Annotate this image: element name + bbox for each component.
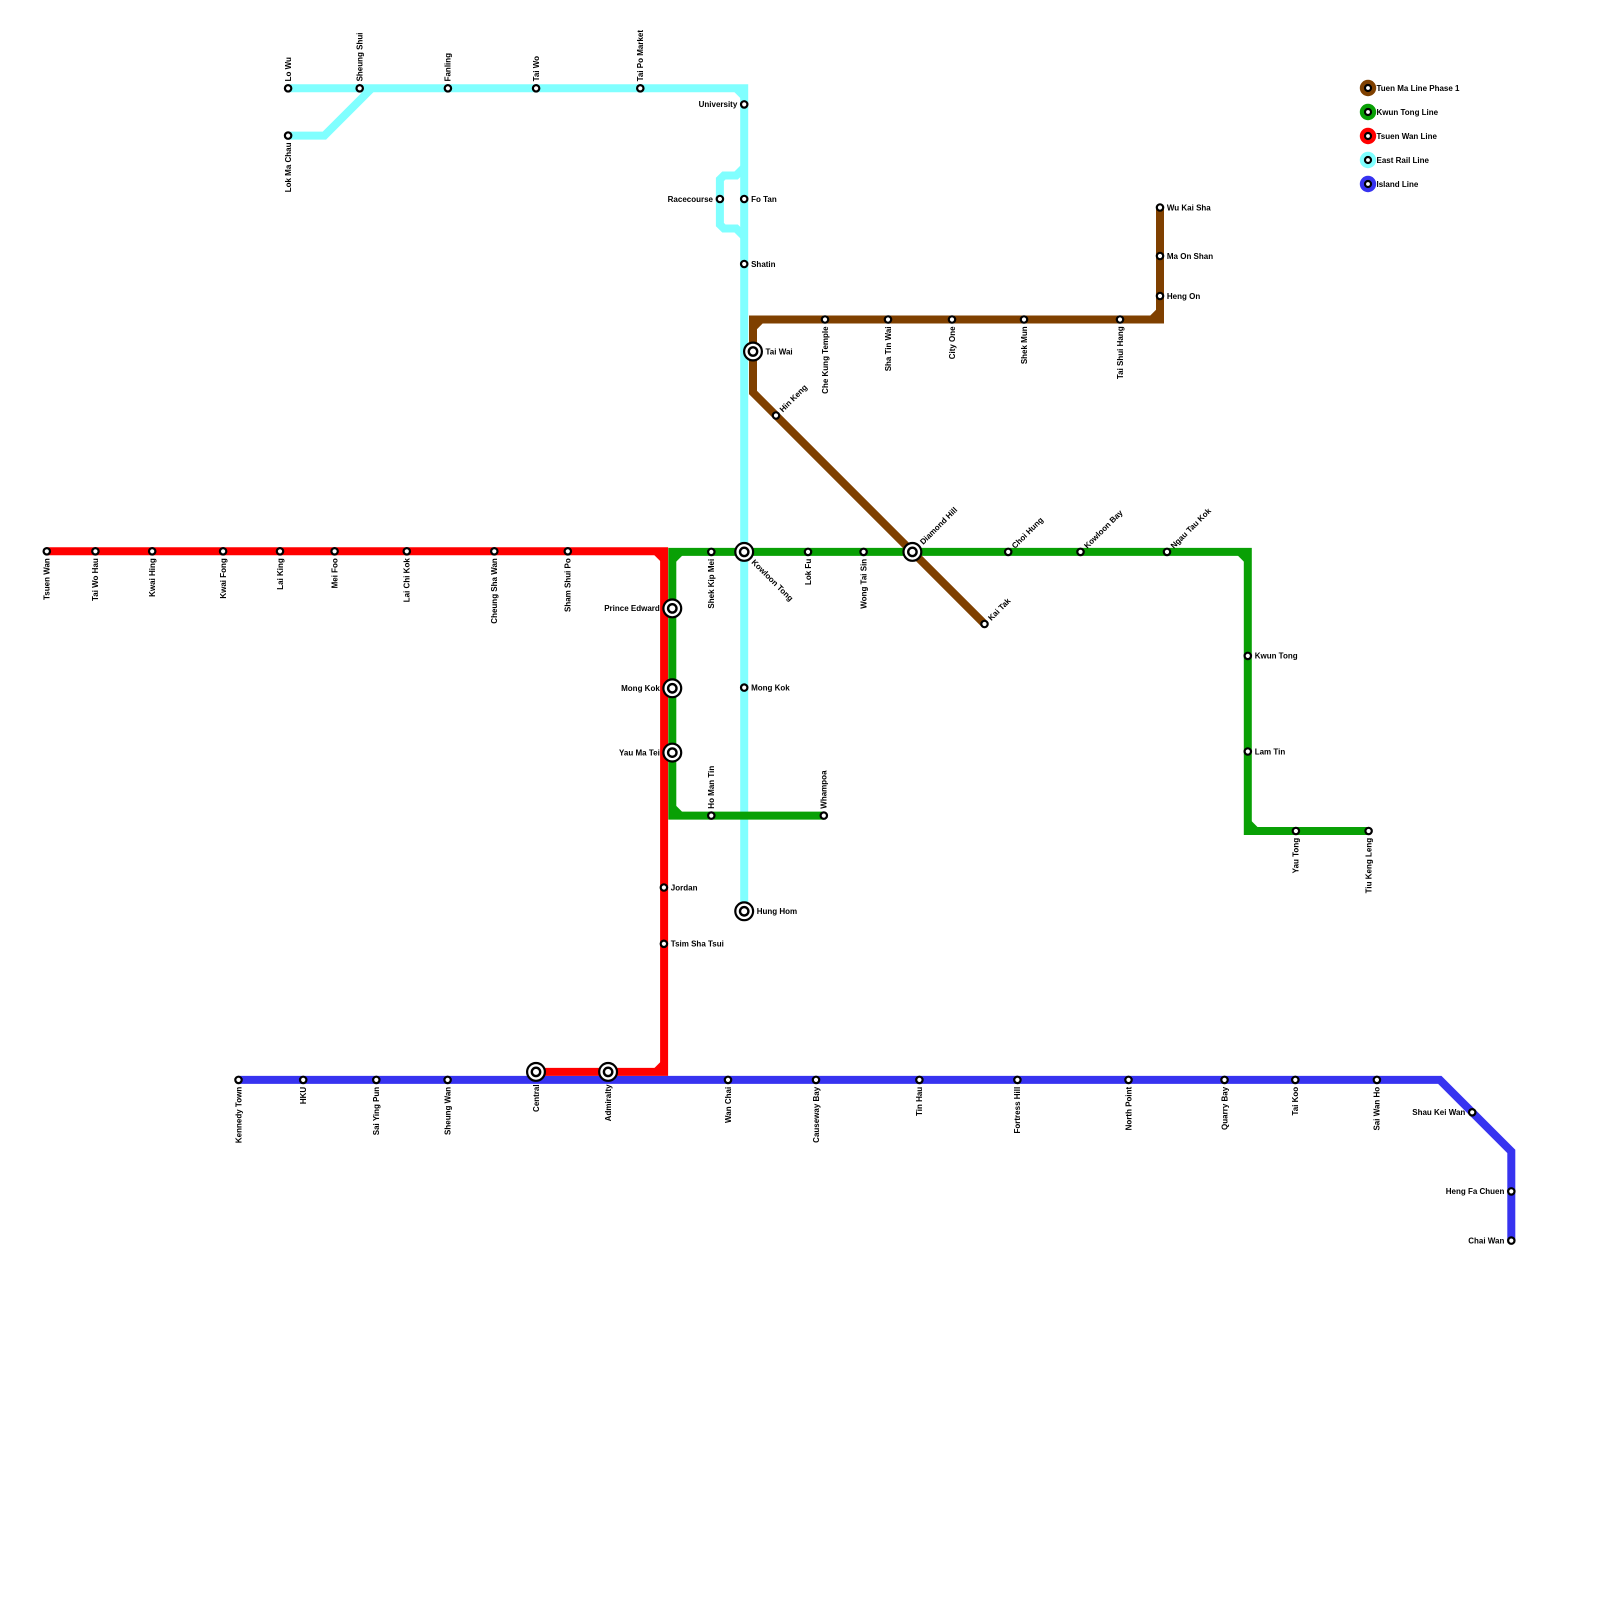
station Wu Kai Sha	[1157, 204, 1163, 210]
svg-text:Ho Man Tin: Ho Man Tin	[707, 766, 716, 809]
wire Kwun Tong Line: Whampoa to Tiu Keng Leng	[672, 552, 1368, 831]
svg-text:Sheung Wan: Sheung Wan	[443, 1087, 452, 1135]
interchange station Kowloon Tong	[735, 543, 753, 561]
wire Kwun Tong chamfer at Ho Man Tin corner	[672, 808, 680, 816]
svg-text:Causeway Bay: Causeway Bay	[812, 1086, 821, 1143]
station Lam Tin	[1245, 748, 1251, 754]
station Racecourse	[717, 196, 723, 202]
interchange station Diamond Hill	[904, 543, 922, 561]
wire Racecourse loop	[720, 168, 744, 237]
svg-text:HKU: HKU	[299, 1087, 308, 1105]
station Kennedy Town	[235, 1077, 241, 1083]
svg-text:Lai Chi Kok: Lai Chi Kok	[403, 558, 412, 603]
station Lok Fu	[805, 549, 811, 555]
svg-text:Whampoa: Whampoa	[820, 770, 829, 809]
svg-text:Admiralty: Admiralty	[604, 1084, 613, 1121]
interchange station Tai Wai	[744, 343, 762, 361]
legend marker Island Line	[1360, 176, 1376, 192]
svg-text:Tai Wo: Tai Wo	[532, 56, 541, 82]
station Sai Wan Ho	[1374, 1077, 1380, 1083]
svg-text:Hung Hom: Hung Hom	[757, 907, 797, 916]
svg-text:Kwai Hing: Kwai Hing	[148, 558, 157, 597]
station Shatin	[741, 261, 747, 267]
station Chai Wan	[1508, 1237, 1514, 1243]
interchange station Mong Kok	[663, 679, 681, 697]
station Tai Shui Hang	[1117, 316, 1123, 322]
station Wong Tai Sin	[860, 549, 866, 555]
station Tiu Keng Leng	[1365, 828, 1371, 834]
station Kwun Tong	[1245, 653, 1251, 659]
wire Tuen Ma Line: Wu Kai Sha to Kai Tak	[753, 208, 1160, 625]
svg-text:Lo Wu: Lo Wu	[284, 57, 293, 81]
station Tin Hau	[916, 1077, 922, 1083]
station Lai King	[277, 548, 283, 554]
svg-text:Che Kung Temple: Che Kung Temple	[821, 326, 830, 394]
svg-text:Tsuen Wan: Tsuen Wan	[43, 558, 52, 600]
svg-text:Wan Chai: Wan Chai	[724, 1087, 733, 1123]
svg-text:Chai Wan: Chai Wan	[1468, 1236, 1504, 1245]
station Lo Wu	[285, 85, 291, 91]
svg-text:Heng Fa Chuen: Heng Fa Chuen	[1446, 1187, 1505, 1196]
svg-text:Racecourse: Racecourse	[668, 195, 714, 204]
station Ngau Tau Kok	[1164, 549, 1170, 555]
station Sheung Wan	[444, 1077, 450, 1083]
interchange station Central	[527, 1063, 545, 1081]
station Hin Keng	[773, 412, 779, 418]
svg-text:Mei Foo: Mei Foo	[330, 558, 339, 588]
svg-text:Sai Ying Pun: Sai Ying Pun	[372, 1087, 381, 1136]
wire Tsuen Wan Line: Tsuen Wan to Central	[47, 551, 664, 1072]
wire Island Line: Kennedy Town to Chai Wan	[239, 1080, 1512, 1241]
station Tai Wo	[533, 85, 539, 91]
svg-text:Lai King: Lai King	[276, 558, 285, 590]
svg-text:Fo Tan: Fo Tan	[751, 195, 777, 204]
svg-text:Tai Shui Hang: Tai Shui Hang	[1116, 326, 1125, 379]
svg-text:Lam Tin: Lam Tin	[1255, 747, 1286, 756]
wire Tsuen Wan chamfer at Sham Shui Po corner	[656, 551, 664, 559]
station Jordan	[661, 884, 667, 890]
legend marker Tsuen Wan Line	[1360, 128, 1376, 144]
svg-text:Sai Wan Ho: Sai Wan Ho	[1373, 1087, 1382, 1131]
station Quarry Bay	[1221, 1077, 1227, 1083]
station Tai Po Market	[637, 85, 643, 91]
interchange station Yau Ma Tei	[663, 744, 681, 762]
svg-text:Tsim Sha Tsui: Tsim Sha Tsui	[671, 940, 724, 949]
wire East Rail main: Lo Wu to Hung Hom	[288, 88, 744, 911]
station Shek Kip Mei	[708, 549, 714, 555]
svg-text:Mong Kok: Mong Kok	[751, 683, 790, 692]
svg-text:Lok Fu: Lok Fu	[804, 559, 813, 585]
station Kowloon Bay	[1077, 549, 1083, 555]
svg-text:Sheung Shui: Sheung Shui	[356, 33, 365, 82]
wire Kwun Tong chamfer at Prince Edward corner	[672, 552, 680, 560]
svg-text:Fortress Hill: Fortress Hill	[1013, 1087, 1022, 1134]
svg-text:Shek Mun: Shek Mun	[1020, 326, 1029, 364]
station University	[741, 101, 747, 107]
station Kwai Hing	[149, 548, 155, 554]
station Fanling	[445, 85, 451, 91]
svg-text:Fanling: Fanling	[444, 53, 453, 82]
station Cheung Sha Wan	[491, 548, 497, 554]
station Che Kung Temple	[822, 316, 828, 322]
wire Tsuen Wan chamfer at Admiralty corner	[656, 1064, 664, 1072]
station Lai Chi Kok	[404, 548, 410, 554]
svg-text:Tin Hau: Tin Hau	[915, 1087, 924, 1116]
station Kai Tak	[981, 621, 987, 627]
station Lok Ma Chau	[285, 132, 291, 138]
svg-text:Mong Kok: Mong Kok	[621, 684, 660, 693]
svg-text:Yau Ma Tei: Yau Ma Tei	[619, 748, 660, 757]
svg-text:Island Line: Island Line	[1377, 180, 1419, 189]
svg-text:Yau Tong: Yau Tong	[1292, 838, 1301, 874]
station Tai Wo Hau	[92, 548, 98, 554]
svg-text:Tai Wai: Tai Wai	[766, 347, 793, 356]
svg-text:Kennedy Town: Kennedy Town	[234, 1087, 243, 1143]
svg-text:North Point: North Point	[1124, 1086, 1133, 1130]
station City One	[949, 316, 955, 322]
svg-text:Shek Kip Mei: Shek Kip Mei	[707, 559, 716, 609]
wire East Rail corner chamfer at University turn	[736, 88, 744, 96]
svg-text:Tuen Ma Line Phase 1: Tuen Ma Line Phase 1	[1377, 84, 1461, 93]
svg-text:Wu Kai Sha: Wu Kai Sha	[1167, 203, 1211, 212]
svg-text:Sha Tin Wai: Sha Tin Wai	[884, 326, 893, 371]
station Whampoa	[821, 812, 827, 818]
station Heng On	[1157, 293, 1163, 299]
svg-text:Quarry Bay: Quarry Bay	[1220, 1086, 1229, 1130]
station Tai Koo	[1292, 1077, 1298, 1083]
svg-text:Jordan: Jordan	[671, 883, 698, 892]
svg-text:Sham Shui Po: Sham Shui Po	[564, 558, 573, 612]
station Kwai Fong	[220, 548, 226, 554]
station North Point	[1125, 1077, 1131, 1083]
wire Tuen Ma chamfer at Tai Wai corner	[753, 320, 761, 328]
svg-text:University: University	[699, 100, 738, 109]
svg-text:City One: City One	[948, 326, 957, 359]
svg-text:Tai Wo Hau: Tai Wo Hau	[91, 558, 100, 601]
svg-text:Ma On Shan: Ma On Shan	[1167, 252, 1213, 261]
svg-text:Shau Kei Wan: Shau Kei Wan	[1412, 1108, 1465, 1117]
svg-text:Central: Central	[532, 1084, 541, 1112]
station Fortress Hill	[1014, 1077, 1020, 1083]
station Sha Tin Wai	[885, 316, 891, 322]
station Ho Man Tin	[708, 812, 714, 818]
wire Kwun Tong chamfer at Lam Tin corner	[1248, 823, 1256, 831]
legend marker Kwun Tong Line	[1360, 104, 1376, 120]
svg-text:Kwun Tong Line: Kwun Tong Line	[1377, 108, 1439, 117]
interchange station Admiralty	[599, 1063, 617, 1081]
svg-text:Tai Koo: Tai Koo	[1291, 1087, 1300, 1116]
station Sheung Shui	[357, 85, 363, 91]
station Mei Foo	[331, 548, 337, 554]
station Shau Kei Wan	[1469, 1109, 1475, 1115]
interchange station Prince Edward	[663, 600, 681, 618]
station Mong Kok	[741, 684, 747, 690]
station Yau Tong	[1293, 828, 1299, 834]
svg-text:Cheung Sha Wan: Cheung Sha Wan	[490, 558, 499, 624]
station Causeway Bay	[813, 1077, 819, 1083]
station Sham Shui Po	[565, 548, 571, 554]
station Shek Mun	[1021, 316, 1027, 322]
svg-text:Prince Edward: Prince Edward	[604, 604, 660, 613]
station Wan Chai	[725, 1077, 731, 1083]
station Fo Tan	[741, 196, 747, 202]
svg-text:East Rail Line: East Rail Line	[1377, 156, 1430, 165]
station Tsim Sha Tsui	[661, 941, 667, 947]
wire East Rail branch to Lok Ma Chau	[288, 88, 372, 135]
interchange station Hung Hom	[735, 902, 753, 920]
station Choi Hung	[1005, 549, 1011, 555]
station Ma On Shan	[1157, 253, 1163, 259]
svg-text:Heng On: Heng On	[1167, 292, 1200, 301]
svg-text:Kwai Fong: Kwai Fong	[219, 558, 228, 599]
svg-text:Wong Tai Sin: Wong Tai Sin	[859, 559, 868, 609]
station Heng Fa Chuen	[1508, 1188, 1514, 1194]
svg-text:Tiu Keng Leng: Tiu Keng Leng	[1364, 838, 1373, 894]
svg-text:Lok Ma Chau: Lok Ma Chau	[284, 142, 293, 192]
station HKU	[300, 1077, 306, 1083]
legend marker East Rail Line	[1360, 152, 1376, 168]
svg-text:Tai Po Market: Tai Po Market	[636, 30, 645, 82]
wire Kwun Tong chamfer at Ngau Tau Kok corner	[1240, 552, 1248, 560]
station Tsuen Wan	[44, 548, 50, 554]
svg-text:Kwun Tong: Kwun Tong	[1255, 652, 1298, 661]
wire Tuen Ma chamfer at Heng On corner	[1152, 312, 1160, 320]
svg-text:Shatin: Shatin	[751, 260, 776, 269]
legend marker Tuen Ma Line Phase 1	[1360, 80, 1376, 96]
station Sai Ying Pun	[373, 1077, 379, 1083]
svg-text:Tsuen Wan Line: Tsuen Wan Line	[1377, 132, 1438, 141]
